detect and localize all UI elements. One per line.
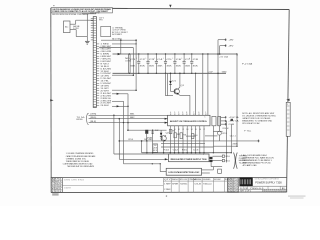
junction dot Q1 collector bus: [179, 73, 181, 75]
module A1 top pin stubs: [171, 113, 206, 115]
junction dot thermostat row: [120, 39, 122, 41]
svg-text:7009311: 7009311: [180, 184, 187, 186]
logo block: [239, 177, 252, 186]
svg-text:CAPACITORS IN UF. VOLTAGES: CAPACITORS IN UF. VOLTAGES: [242, 117, 271, 120]
svg-text:5: 5: [275, 191, 276, 193]
junction dot C9 on branch: [152, 130, 153, 131]
wire Q1 collector to return bus: [179, 73, 181, 87]
small dark component on sense line: [231, 119, 233, 121]
svg-text:(SNS): (SNS): [233, 143, 239, 145]
arrowhead on wire pin21: [117, 93, 120, 95]
svg-text:1. UNLESS OTHERWISE INDICATED: 1. UNLESS OTHERWISE INDICATED: [66, 152, 94, 155]
output terminal E3 arc: [236, 53, 237, 55]
connector J1 internal marks: [287, 106, 290, 130]
svg-text:E10: E10: [226, 156, 230, 158]
size code number row dividers: [243, 186, 280, 189]
svg-text:R8: R8: [147, 137, 152, 139]
sense wire 3: [89, 122, 168, 124]
vertical wire V1: [113, 115, 115, 154]
capacitor C1: [127, 53, 137, 74]
center cell entry texts: [164, 184, 211, 191]
logo vertical divider: [252, 177, 254, 186]
test point box TP1: [153, 144, 158, 153]
output wire -15V: [221, 120, 226, 122]
svg-text:+15V 1A: +15V 1A: [229, 116, 240, 119]
wire AC neutral to ground rail: [76, 36, 87, 38]
potentiometer R11: [218, 126, 222, 141]
svg-text:+5V 16A: +5V 16A: [219, 55, 229, 58]
corner dot x141.6: [141, 140, 143, 142]
transistor Q1: [171, 87, 180, 94]
link wire y166.6: [211, 166, 222, 168]
svg-text:C2: C2: [140, 59, 145, 61]
right border connector J1: [286, 102, 290, 136]
connector box lower right: [218, 169, 222, 173]
vertical wire x213 lower: [212, 126, 214, 153]
svg-text:THE DRAIN IS AT FULL RATED AMP: THE DRAIN IS AT FULL RATED AMPS: [67, 165, 95, 168]
callout box B1 regulated supply: [169, 154, 210, 162]
sense wire 1: [89, 114, 168, 116]
junction dot x195 on return bus: [195, 73, 196, 74]
junction dot y146 x237: [236, 146, 237, 147]
mesh wire y136: [186, 135, 196, 137]
svg-text:1: 1: [271, 191, 272, 193]
svg-text:TP: TP: [153, 145, 157, 147]
revision table rows: [51, 178, 62, 193]
svg-text:BB1: BB1: [130, 114, 135, 116]
vertical x213 to B2: [212, 167, 214, 170]
wire V1 into B1 top edge: [114, 153, 169, 155]
svg-text:F Tba: F Tba: [244, 130, 252, 132]
svg-text:J: J: [287, 104, 288, 106]
svg-text:7300-0-0: 7300-0-0: [203, 184, 212, 186]
used-on table entries: [228, 179, 239, 193]
junction dot jumper top: [135, 39, 137, 41]
jumper vertical x131: [132, 48, 134, 76]
junction sense3 vertical V4: [127, 122, 129, 124]
mesh wire y147: [161, 146, 213, 148]
svg-text:4: 4: [267, 191, 268, 193]
wire pin26 to vertical V4: [112, 105, 128, 107]
svg-text:GND: GND: [222, 72, 228, 74]
svg-text:2: 2: [269, 191, 270, 193]
svg-text:C6: C6: [176, 59, 181, 61]
terminal strip TB1 body: [93, 17, 96, 108]
corner V4 branch at y130: [127, 129, 129, 131]
arrowhead sense wire 2 into A1: [165, 118, 168, 120]
junction dot x146.9: [146, 140, 147, 141]
capacitor C8: [189, 53, 199, 74]
svg-text:E11: E11: [226, 160, 230, 162]
signature band divider: [62, 185, 163, 187]
wire AC hot vertical jog: [75, 20, 77, 24]
junction dot bus return at D1: [170, 73, 172, 75]
wire Q1 emitter drop to A1 pin: [189, 95, 191, 115]
revision smudge below border: [52, 193, 58, 195]
corner dot wire V3 jog: [160, 163, 161, 164]
svg-text:(ORN): (ORN): [90, 114, 96, 116]
diode D2: [160, 130, 162, 136]
wire thermostat row: [101, 39, 136, 41]
wire AC neutral from plug: [70, 29, 76, 31]
wire pin24 to vertical V3: [112, 100, 124, 102]
svg-text:7: 7: [277, 191, 278, 193]
vertical wire x231 lower: [230, 124, 232, 153]
svg-text:1: 1: [205, 117, 206, 119]
svg-text:C8: C8: [193, 59, 198, 61]
wire pair bottom link: [165, 95, 173, 97]
svg-text:LOW VOLTAGE DETECTION LOGIC: LOW VOLTAGE DETECTION LOGIC: [168, 171, 200, 174]
resistor R2: [174, 133, 177, 138]
svg-text:AUTOMATIC: AUTOMATIC: [112, 33, 123, 36]
capacitor C6: [172, 53, 182, 74]
module A1 bottom pin stubs: [170, 126, 204, 129]
svg-text:H724: H724: [234, 191, 239, 193]
faston connector upper: [222, 155, 224, 157]
svg-text:POWER CORD IS CONNECTED TO A L: POWER CORD IS CONNECTED TO A LIVE OUTLET…: [52, 10, 109, 13]
svg-text:C12: C12: [173, 149, 179, 151]
output wire +15V: [221, 116, 226, 118]
svg-text:R1: R1: [173, 130, 176, 132]
svg-text:SHT 1 OF 1: SHT 1 OF 1: [240, 191, 251, 193]
svg-text:F-2 15A: F-2 15A: [242, 62, 253, 65]
used-on table: [227, 178, 238, 193]
wire 115V line top: [82, 13, 96, 15]
mesh wire y143.6: [161, 143, 205, 145]
terminal strip TB1 pin ticks: [93, 18, 96, 107]
mesh wire y131 right: [213, 130, 222, 132]
thermostat box: [101, 26, 111, 36]
bottom bus y152.7: [142, 152, 232, 154]
svg-text:Q2: Q2: [166, 132, 169, 134]
svg-text:2 REF: 2 REF: [164, 189, 170, 191]
svg-text:C5: C5: [166, 59, 171, 61]
svg-text:1: 1: [203, 154, 204, 156]
svg-text:BB2: BB2: [130, 117, 135, 119]
output wire common: [221, 123, 226, 125]
svg-text:AT 6 AMP LOAD: AT 6 AMP LOAD: [243, 164, 258, 167]
vertical feed to bus from breaker row: [120, 40, 122, 54]
junction dot wire V3: [152, 163, 153, 164]
junction dot V3 sense3: [123, 122, 124, 123]
note box top-left: [51, 8, 112, 13]
vertical wire x226 lower: [226, 121, 228, 163]
label R8 two lines: [147, 137, 152, 141]
vertical link B1 to B2 right: [210, 162, 212, 166]
svg-text:26 BLK: 26 BLK: [100, 105, 110, 107]
wire B1 to fastons lower: [213, 159, 223, 161]
wire V3 run y163.8: [124, 163, 161, 165]
svg-text:8330: 8330: [76, 119, 82, 121]
ground symbol: [85, 41, 90, 44]
jumper vertical x136: [135, 40, 137, 90]
revision table entries: [52, 178, 62, 193]
svg-text:D1: D1: [172, 81, 176, 83]
distribution cells: [262, 189, 287, 192]
svg-text:(BLK): (BLK): [90, 121, 97, 123]
vertical stub x141.6: [141, 141, 143, 153]
junction sense1 vertical V1: [113, 115, 115, 117]
svg-text:WITH LINE AT 115 VAC.: WITH LINE AT 115 VAC.: [242, 122, 260, 125]
capacitor C9 tick marks: [151, 132, 154, 133]
svg-text:115V 60HZ: 115V 60HZ: [90, 12, 100, 14]
pin numbers below module A1: [170, 129, 206, 131]
capacitor C4: [154, 53, 164, 74]
junction dot R8 lead y141: [146, 140, 147, 141]
junction dot wire26 vertical V4: [127, 106, 129, 108]
svg-text:D2: D2: [155, 130, 158, 132]
bleed-through smudge bottom right: [288, 195, 306, 198]
svg-text:MEASURED TO CHASSIS GND: MEASURED TO CHASSIS GND: [242, 120, 273, 123]
junction dot y141 on V2: [119, 140, 121, 142]
svg-text:NOTE: ALL RESISTORS ARE 1/4W: NOTE: ALL RESISTORS ARE 1/4W: [242, 112, 274, 115]
svg-text:QTY: QTY: [164, 179, 171, 181]
relay K1 box: [212, 116, 216, 125]
junction sense2 vertical V2: [119, 118, 121, 120]
extra right-column labels: [223, 128, 239, 145]
svg-text:9: 9: [279, 191, 280, 193]
remote sense end tag: [258, 140, 259, 143]
zone tick top border: [169, 5, 171, 8]
ground rail vertical: [86, 14, 88, 41]
pin numbers above module A1: [170, 112, 206, 114]
svg-text:C13: C13: [193, 149, 199, 151]
voltage regulator module A1: [168, 115, 210, 126]
output terminal E1 wire: [218, 39, 226, 117]
svg-text:R10: R10: [129, 139, 134, 141]
svg-text:F 1213: F 1213: [52, 191, 62, 193]
long vertical wire x237 from bus to lower right: [236, 54, 238, 146]
arrowhead wire V2 into B1: [165, 158, 168, 160]
sheet border frame: [51, 8, 289, 193]
svg-text:XFMR: XFMR: [172, 184, 179, 186]
lower verticals under module A1: [170, 128, 204, 152]
wire plug to fuse: [70, 23, 76, 25]
signature band vertical: [61, 178, 63, 193]
wire B2 right lower: [202, 172, 210, 174]
svg-text:R14: R14: [163, 149, 169, 151]
vertical wire V2: [118, 119, 120, 160]
svg-text:1: 1: [273, 191, 274, 193]
zone tick left border: [50, 99, 53, 101]
harness brace left: [87, 113, 89, 124]
wire pair vertical left of Q1: [165, 73, 167, 95]
capacitor C2: [136, 53, 146, 74]
svg-text:R15: R15: [182, 149, 188, 151]
svg-text:7300-0-1: 7300-0-1: [250, 188, 266, 190]
size code number row texts: [240, 188, 287, 190]
svg-text:1 REF: 1 REF: [164, 184, 170, 186]
svg-text:C1: C1: [130, 59, 135, 61]
svg-text:C14 .1: C14 .1: [230, 136, 236, 138]
connector blades right of B1: [210, 157, 213, 162]
title block top rule: [51, 177, 287, 179]
wire pin21 to vertical V4: [112, 93, 128, 95]
speck above top-left corner: [53, 4, 55, 7]
callout box B2 low voltage detect: [166, 168, 201, 175]
vertical wire V3: [123, 101, 125, 164]
resistor R8 dark body: [145, 130, 148, 134]
wire Q1 emitter horizontal: [180, 94, 190, 96]
wire V4 branch to Q2 diode: [128, 129, 167, 131]
mesh wire y135.9 right: [205, 135, 218, 137]
connector block shaded: [218, 116, 221, 125]
jumper wire pin2 right: [99, 47, 133, 49]
svg-text:Q1: Q1: [181, 85, 184, 87]
sheet row rule: [239, 188, 286, 190]
svg-text:-15V 1A: -15V 1A: [229, 120, 240, 123]
cable bundle arcs: [234, 153, 238, 169]
mesh wire y146 right: [213, 145, 237, 147]
TB1 secondary pin wire labels: [96, 44, 112, 107]
long vertical wire x202: [202, 54, 204, 115]
zone tick right border: [286, 99, 289, 101]
center cell header texts: [164, 178, 234, 181]
svg-text:23: 23: [153, 148, 157, 150]
vertical wire V4: [127, 94, 129, 130]
output terminal E2 wire: [220, 44, 226, 54]
svg-text:6: 6: [281, 191, 282, 193]
revision table frame: [51, 178, 62, 193]
svg-text:8: 8: [265, 191, 266, 193]
arrowhead at +DC bus pin end: [118, 53, 121, 55]
test point TP1 text: [153, 145, 157, 152]
svg-text:1: 1: [285, 191, 286, 193]
jumper return pin19: [112, 89, 136, 91]
remote sense wire y141 to border tag: [211, 140, 258, 142]
long vertical wire x195: [195, 73, 197, 115]
svg-text:POWER SUPPLY 7300: POWER SUPPLY 7300: [255, 181, 282, 185]
AC plug box P1: [64, 21, 71, 33]
jumper return pin13: [112, 74, 133, 76]
svg-text:K1: K1: [153, 150, 157, 152]
capacitor C9 lead to bottom bus: [152, 130, 154, 153]
long vertical wire x207: [207, 54, 209, 115]
resistor R3: [180, 133, 183, 139]
svg-text:REGULATED POWER SUPPLY 7300: REGULATED POWER SUPPLY 7300: [171, 158, 208, 161]
junction dot pin1 extension: [135, 43, 136, 44]
resistor R8 lead down: [146, 134, 148, 141]
bus return lower: [113, 72, 227, 74]
wire AC neutral vertical jog: [75, 30, 77, 37]
size code number row rule: [239, 185, 286, 187]
faston connector lower: [222, 159, 224, 161]
junction dots on +DC bus right: [217, 53, 220, 74]
junction dot x207 on +DC bus: [207, 53, 208, 54]
svg-text:BEFORE SERVICING INTERNAL COMP: BEFORE SERVICING INTERNAL COMPONENTS: [52, 13, 88, 16]
wire V3 jog down to B2: [160, 164, 166, 172]
arrowhead on wire pin26: [117, 105, 120, 107]
wire B2 right upper: [202, 169, 214, 171]
wire V2 into B1: [119, 158, 168, 160]
wire B1 to fastons upper: [213, 155, 223, 157]
capacitor C5: [163, 53, 173, 74]
vertical stub x146.9: [146, 141, 148, 153]
svg-text:ADJUST VOLT REGULATOR CONTROL: ADJUST VOLT REGULATOR CONTROL: [170, 120, 208, 123]
svg-text:(RED): (RED): [90, 117, 96, 119]
mesh wire y141 long: [119, 140, 211, 142]
transformer T1 primary stubs left of strip: [91, 18, 93, 40]
svg-text:8: 8: [263, 191, 264, 193]
svg-text:R3: R3: [183, 134, 186, 136]
svg-text:DRN CHK ENG: DRN CHK ENG: [64, 180, 85, 182]
diode D1: [169, 73, 171, 88]
wire AC hot upper: [76, 19, 94, 21]
capacitor C7: [181, 53, 191, 74]
junction dot x202 on +DC bus: [202, 53, 203, 54]
sense wire 2: [89, 118, 168, 120]
wire Q1 emitter run: [178, 94, 180, 96]
title block center cell dividers: [163, 178, 227, 193]
bus +DC top: [113, 53, 237, 55]
resistor R4: [191, 134, 194, 139]
arrowhead sense wire 3 into A1: [165, 122, 168, 124]
capacitor C3: [145, 53, 155, 74]
resistor R1: [169, 129, 172, 133]
svg-text:PRI: PRI: [99, 20, 103, 22]
svg-text:3: 3: [283, 191, 284, 193]
wire pin1 row extension to jumper: [112, 43, 136, 45]
component value smudges above bottom bus: [163, 149, 198, 151]
junction dots bottom bus: [146, 152, 232, 153]
svg-text:R16 5K: R16 5K: [223, 128, 230, 130]
transistor Q2: [161, 135, 166, 153]
